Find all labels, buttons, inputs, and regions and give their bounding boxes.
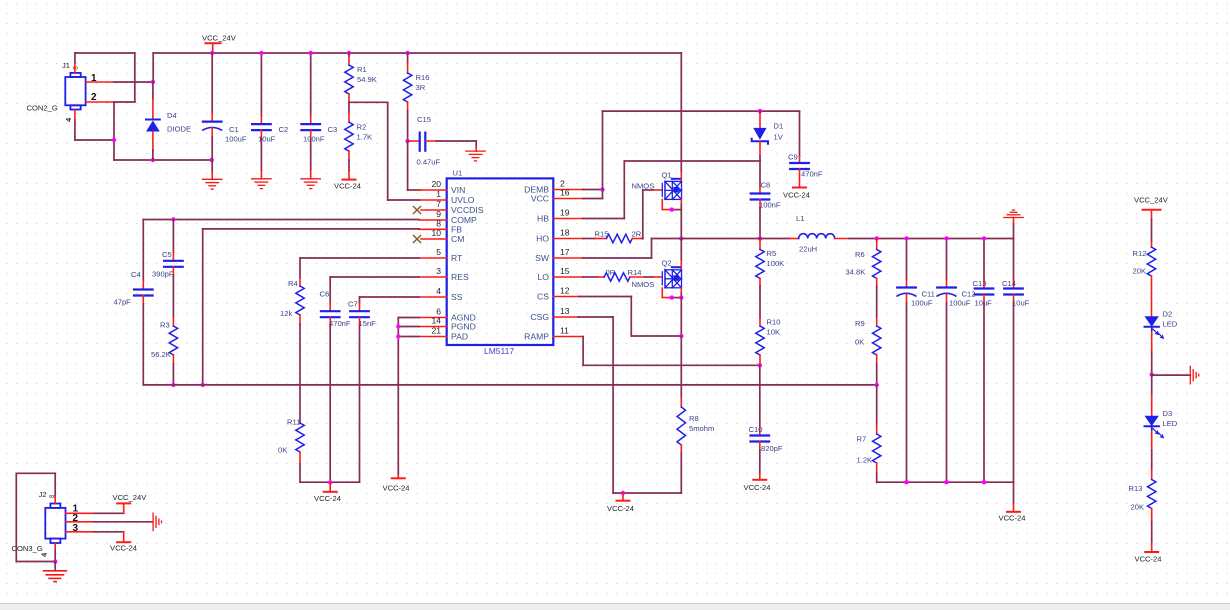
- svg-text:0R: 0R: [606, 268, 616, 277]
- U1 left pin names: [451, 185, 484, 342]
- svg-text:12: 12: [560, 286, 570, 296]
- node J1 pin1 / D4: [151, 80, 155, 84]
- no-connect X on VCCDIS: [414, 207, 421, 214]
- svg-text:56.2K: 56.2K: [151, 350, 171, 359]
- svg-text:820pF: 820pF: [761, 444, 783, 453]
- svg-text:10uF: 10uF: [258, 135, 276, 144]
- svg-text:15nF: 15nF: [359, 319, 377, 328]
- svg-text:LED: LED: [1163, 419, 1178, 428]
- svg-text:3R: 3R: [416, 83, 426, 92]
- J2 bottom pin wire: [54, 550, 56, 561]
- node J1 bottom loop: [112, 138, 116, 142]
- svg-text:J1: J1: [62, 61, 70, 70]
- svg-text:Q2: Q2: [662, 259, 672, 268]
- svg-text:8: 8: [436, 218, 441, 228]
- U1 right pin names: [524, 185, 550, 342]
- svg-text:47pF: 47pF: [114, 298, 132, 307]
- svg-text:R14: R14: [628, 268, 642, 277]
- node DEMB/VCC: [600, 187, 604, 191]
- svg-text:SS: SS: [451, 292, 463, 302]
- svg-text:10K: 10K: [767, 328, 781, 337]
- capacitor C14 column: [1004, 239, 1023, 483]
- svg-text:R9: R9: [855, 319, 865, 328]
- connector J2 body: [45, 504, 65, 544]
- svg-text:D2: D2: [1163, 310, 1173, 319]
- resistor R10: [756, 318, 764, 365]
- svg-text:CM: CM: [451, 234, 464, 244]
- ground C1: [203, 179, 222, 189]
- wire SS horizontal: [360, 296, 420, 298]
- wire CSG right: [578, 316, 613, 318]
- J1 pin2 lead: [86, 101, 114, 103]
- main top rail VCC_24V: [153, 52, 681, 54]
- node C12 top: [944, 236, 948, 240]
- svg-text:C15: C15: [417, 115, 431, 124]
- wire RES horizontal: [330, 276, 419, 278]
- svg-text:100K: 100K: [767, 259, 785, 268]
- connector J1 body: [65, 73, 85, 110]
- wire pin1 riser: [123, 503, 125, 513]
- node Q2 source right: [679, 295, 683, 299]
- J2 bottom pin lead: [54, 543, 56, 550]
- wire down right of J1: [134, 53, 136, 102]
- svg-text:DIODE: DIODE: [167, 125, 191, 134]
- svg-text:VCC-24: VCC-24: [383, 484, 410, 493]
- J1 top pin: [74, 63, 76, 74]
- J2 loop wire bottom: [16, 561, 55, 563]
- svg-text:C13: C13: [973, 279, 987, 288]
- wire HB right: [583, 218, 624, 220]
- svg-text:C6: C6: [320, 290, 330, 299]
- svg-text:C10: C10: [749, 425, 763, 434]
- diode D1 (zener): [752, 111, 768, 161]
- wire CS right: [579, 296, 631, 298]
- capacitor C13 column: [975, 239, 994, 483]
- resistor R6: [873, 239, 881, 319]
- svg-text:C12: C12: [962, 290, 976, 299]
- svg-text:20K: 20K: [1131, 503, 1145, 512]
- svg-text:10: 10: [431, 228, 441, 238]
- svg-text:VCC-24: VCC-24: [1135, 555, 1162, 564]
- ground J2: [44, 571, 67, 582]
- node J2 ground: [53, 559, 57, 563]
- diode D2 LED: [1145, 316, 1164, 338]
- resistor R9: [873, 318, 881, 385]
- wire Q1 gate riser: [642, 190, 644, 239]
- inductor L1: [790, 234, 849, 239]
- resistor R8: [677, 336, 685, 493]
- wire to J1 pin2: [114, 101, 135, 103]
- Q2 drain lead: [680, 261, 682, 270]
- J1 bottom pin: [74, 110, 76, 121]
- wire VCC to node: [583, 198, 603, 200]
- svg-text:SW: SW: [535, 253, 550, 263]
- svg-text:1.7K: 1.7K: [357, 133, 373, 142]
- svg-text:CSG: CSG: [530, 312, 549, 322]
- svg-text:LO: LO: [538, 272, 550, 282]
- node C13 top: [982, 236, 986, 240]
- svg-text:R8: R8: [689, 414, 699, 423]
- J2 loop wire top: [16, 472, 55, 474]
- svg-text:VCC-24: VCC-24: [607, 504, 634, 513]
- node Q1 source: [670, 207, 674, 211]
- wire bottom rail to C1: [114, 159, 212, 161]
- svg-text:0K: 0K: [855, 338, 864, 347]
- svg-text:J2: J2: [39, 490, 47, 499]
- Q1 source hook: [662, 200, 681, 210]
- svg-text:D3: D3: [1163, 409, 1173, 418]
- node R1 rail: [347, 51, 351, 55]
- svg-text:C9: C9: [788, 153, 798, 162]
- J2 pin2 lead: [66, 521, 95, 523]
- node VCC-24 CSG tap: [621, 491, 625, 495]
- svg-text:18: 18: [560, 228, 570, 238]
- wire HO lead: [583, 238, 595, 240]
- capacitor C2 column: [252, 53, 271, 179]
- capacitor C12 column: [937, 239, 956, 483]
- svg-text:21: 21: [431, 326, 441, 336]
- resistor R13: [1148, 480, 1156, 553]
- Q1 gate lead: [653, 189, 662, 191]
- Q2 source hook: [662, 288, 681, 298]
- resistor R1: [345, 53, 353, 102]
- power VCC-24 bottom right: [1007, 504, 1020, 512]
- wire J2 pin3: [94, 531, 124, 533]
- U1 left pin numbers: [431, 179, 441, 336]
- svg-text:15: 15: [560, 266, 570, 276]
- node C15 tap: [405, 139, 409, 143]
- svg-text:22uH: 22uH: [799, 245, 817, 254]
- node C12 bottom: [944, 480, 948, 484]
- svg-text:R6: R6: [855, 250, 865, 259]
- svg-text:D1: D1: [774, 122, 784, 131]
- resistor R3: [169, 317, 177, 385]
- svg-text:RES: RES: [451, 272, 469, 282]
- svg-text:FB: FB: [451, 225, 462, 235]
- svg-text:1: 1: [436, 189, 441, 199]
- svg-text:20K: 20K: [1133, 267, 1147, 276]
- wire FB horizontal: [203, 228, 419, 230]
- svg-text:VCC_24V: VCC_24V: [1134, 196, 1169, 205]
- power VCC-24 under AGND column: [392, 474, 405, 478]
- wire J2 pin2: [94, 521, 153, 523]
- svg-text:PAD: PAD: [451, 332, 468, 342]
- ground C2: [252, 179, 271, 189]
- no-connect X on CM: [414, 236, 421, 243]
- diode D3 LED: [1145, 416, 1164, 438]
- power VCC-24 under R2: [343, 179, 356, 181]
- capacitor C4 column: [134, 220, 153, 385]
- wire rail from pin1 node up: [152, 53, 154, 82]
- svg-text:L1: L1: [796, 214, 804, 223]
- power VCC-24 J2: [117, 541, 130, 543]
- ground J2 pin2 (sideways): [153, 513, 161, 530]
- resistor R16: [403, 53, 411, 141]
- node C1 bottom rail: [210, 158, 214, 162]
- node C11 top: [904, 236, 908, 240]
- wire VCC node up: [602, 111, 604, 198]
- wire J1 pin2 down: [113, 102, 115, 160]
- wire mid node down to D3: [1151, 375, 1153, 416]
- svg-text:VCC: VCC: [531, 194, 549, 204]
- svg-text:470nF: 470nF: [801, 170, 823, 179]
- ground output (inverted): [1004, 210, 1023, 223]
- node R6 top: [875, 236, 879, 240]
- wire VCC top horizontal to C9: [603, 110, 800, 112]
- svg-text:5mohm: 5mohm: [689, 424, 714, 433]
- svg-text:VCC-24: VCC-24: [314, 494, 341, 503]
- svg-text:R15: R15: [595, 230, 609, 239]
- svg-text:LM5117: LM5117: [484, 346, 514, 356]
- node Q2 source left: [670, 295, 674, 299]
- wire D2 to mid node: [1151, 327, 1153, 375]
- wire L1 to output rail: [849, 238, 1014, 240]
- wire LO lead: [583, 276, 597, 278]
- capacitor C8 column: [751, 161, 770, 239]
- svg-text:10uF: 10uF: [1012, 299, 1030, 308]
- svg-text:R12: R12: [1133, 249, 1147, 258]
- svg-text:VCC-24: VCC-24: [744, 483, 771, 492]
- svg-text:R11: R11: [287, 418, 300, 427]
- wire CSG down: [612, 317, 614, 493]
- svg-text:VCC-24: VCC-24: [334, 182, 361, 191]
- node SW: [679, 236, 683, 240]
- svg-text:2R: 2R: [632, 230, 642, 239]
- wire FB drop: [202, 229, 204, 385]
- op-amp/controller U1 body: [447, 178, 554, 345]
- power VCC_24V J2: [117, 502, 130, 504]
- J2 top pin wire: [54, 473, 56, 497]
- svg-text:NMOS: NMOS: [632, 182, 655, 191]
- svg-text:100uF: 100uF: [911, 299, 933, 308]
- svg-text:100uF: 100uF: [225, 135, 247, 144]
- svg-text:C1: C1: [229, 125, 239, 134]
- resistor R5: [756, 239, 764, 319]
- capacitor C9 column: [790, 111, 809, 187]
- wire R15 to Q1 gate corner: [642, 238, 643, 240]
- svg-text:∞: ∞: [49, 492, 54, 501]
- wire to R12: [1151, 220, 1153, 242]
- svg-text:5: 5: [436, 247, 441, 257]
- J2 loop wire left: [15, 473, 17, 561]
- wire bottom rail down to VCC-24: [1013, 482, 1015, 503]
- svg-text:R2: R2: [357, 123, 367, 132]
- capacitor C15 (horizontal): [408, 133, 477, 152]
- wire RAMP drop: [582, 337, 584, 366]
- svg-text:16: 16: [560, 188, 570, 198]
- svg-text:3: 3: [436, 266, 441, 276]
- node SW C8 tap: [758, 236, 762, 240]
- transistor Q1: [662, 179, 681, 200]
- svg-text:10uF: 10uF: [975, 299, 993, 308]
- svg-text:VCCDIS: VCCDIS: [451, 205, 484, 215]
- capacitor C5 column top: [164, 220, 183, 318]
- J2 pin3 lead: [66, 531, 95, 533]
- node C13 bottom: [982, 480, 986, 484]
- svg-text:C3: C3: [328, 125, 338, 134]
- svg-text:20: 20: [431, 179, 441, 189]
- wire VIN drop: [407, 141, 409, 190]
- wire J2 pin1: [94, 512, 124, 514]
- svg-text:VCC-24: VCC-24: [110, 544, 137, 553]
- node FB rail: [201, 383, 205, 387]
- svg-text:VCC_24V: VCC_24V: [202, 34, 237, 43]
- svg-text:17: 17: [560, 247, 570, 257]
- svg-text:R4: R4: [288, 279, 298, 288]
- capacitor C7 column: [350, 297, 369, 482]
- wire HB up: [623, 161, 625, 219]
- power VCC_24V LED column: [1143, 210, 1161, 220]
- wire RT horizontal: [300, 257, 419, 259]
- wire J1 bottom pin down: [74, 120, 76, 140]
- wire J1 bottom loop: [75, 139, 114, 141]
- svg-text:54.9K: 54.9K: [357, 75, 377, 84]
- node R3 rail: [171, 383, 175, 387]
- node R16 rail: [405, 51, 409, 55]
- long FB rail: [143, 384, 876, 386]
- svg-text:D4: D4: [167, 111, 177, 120]
- svg-text:C4: C4: [131, 270, 141, 279]
- svg-text:C7: C7: [348, 300, 358, 309]
- J2 pin1 lead: [66, 512, 95, 514]
- wire output rail up to ground: [1013, 224, 1015, 239]
- svg-text:100uF: 100uF: [949, 299, 971, 308]
- capacitor C1 column: [203, 53, 222, 179]
- power VCC-24 mid: [324, 482, 337, 491]
- svg-text:C8: C8: [761, 181, 771, 190]
- wire J1 pin1 to D4 column: [114, 81, 153, 83]
- svg-text:VCC-24: VCC-24: [783, 191, 810, 200]
- node VCC-24 mid tap: [328, 480, 332, 484]
- wire COMP horizontal: [143, 219, 419, 221]
- wire AGND column down: [397, 318, 399, 475]
- svg-text:34.8K: 34.8K: [846, 268, 866, 277]
- wire R1/R2 junction to right: [349, 101, 388, 103]
- svg-text:R3: R3: [160, 321, 170, 330]
- svg-text:19: 19: [560, 208, 570, 218]
- wire UVLO to pin: [388, 199, 419, 201]
- svg-text:VIN: VIN: [451, 185, 465, 195]
- capacitor C6 column: [321, 277, 340, 483]
- svg-text:R5: R5: [767, 249, 777, 258]
- svg-text:C11: C11: [922, 290, 935, 299]
- wire Q2 source down: [680, 298, 682, 336]
- wire AGND to column: [398, 317, 419, 319]
- power VCC-24 under CSG: [617, 493, 630, 501]
- resistor R12: [1147, 241, 1155, 316]
- resistor R7: [873, 385, 881, 482]
- node R9 FB rail: [875, 383, 879, 387]
- svg-text:VCC-24: VCC-24: [999, 514, 1026, 523]
- wire CS drop: [630, 297, 632, 337]
- diode D4: [146, 82, 160, 160]
- wire D3 to R13: [1151, 426, 1153, 479]
- wire CS to R8 node: [631, 335, 681, 337]
- svg-text:C5: C5: [162, 250, 172, 259]
- bottom gray strip: [0, 604, 1230, 610]
- resistor R14 (horizontal): [597, 273, 662, 281]
- svg-text:PGND: PGND: [451, 322, 476, 332]
- svg-text:CS: CS: [537, 292, 549, 302]
- svg-text:100nF: 100nF: [759, 201, 781, 210]
- svg-text:R1: R1: [357, 65, 367, 74]
- ground LED mid (sideways): [1190, 366, 1198, 383]
- svg-text:R10: R10: [767, 318, 781, 327]
- svg-text:RAMP: RAMP: [524, 332, 549, 342]
- svg-text:12k: 12k: [280, 309, 292, 318]
- svg-text:RT: RT: [451, 253, 463, 263]
- wire SW right: [583, 257, 652, 259]
- node C2 rail: [259, 51, 263, 55]
- svg-text:LED: LED: [1163, 320, 1178, 329]
- node LED mid: [1150, 372, 1154, 376]
- wire Q1 source to SW: [680, 210, 682, 239]
- node VCC_24V rail: [210, 51, 214, 55]
- wire HB top to C8: [624, 160, 760, 162]
- svg-text:R13: R13: [1129, 484, 1143, 493]
- resistor R4: [296, 258, 304, 423]
- wire VIN rail down to Q1: [680, 53, 682, 172]
- wire R10 node down: [759, 365, 761, 427]
- svg-text:100nF: 100nF: [303, 135, 325, 144]
- svg-text:11: 11: [560, 326, 569, 336]
- resistor R2: [345, 102, 353, 179]
- svg-text:UVLO: UVLO: [451, 195, 475, 205]
- wire J1 top to rail: [74, 53, 76, 63]
- wire VIN horizontal: [408, 189, 420, 191]
- wire J2 ground stem: [54, 562, 56, 571]
- svg-text:0K: 0K: [278, 446, 287, 455]
- wire CSG bottom to R8: [613, 492, 681, 494]
- U1 right pin numbers: [560, 179, 570, 336]
- Q1 drain lead: [680, 172, 682, 181]
- svg-text:0.47uF: 0.47uF: [417, 158, 441, 167]
- svg-text:CON2_G: CON2_G: [27, 104, 58, 113]
- wire R11/C6/C7 bottom join: [300, 481, 360, 483]
- svg-text:C2: C2: [279, 125, 289, 134]
- svg-text:R7: R7: [857, 435, 867, 444]
- svg-text:14: 14: [431, 316, 441, 326]
- wire top-left rail segment: [75, 52, 135, 54]
- J2 top pin lead: [54, 497, 56, 503]
- power VCC_24V top-left: [206, 43, 221, 52]
- svg-text:4: 4: [436, 286, 441, 296]
- wire pin3 drop: [123, 532, 125, 542]
- node C5 tap on COMP: [171, 217, 175, 221]
- capacitor C11 column: [897, 239, 916, 483]
- wire Q1 gate horizontal: [643, 189, 653, 191]
- svg-text:NMOS: NMOS: [632, 280, 655, 289]
- wire SW node down to Q2: [680, 239, 682, 261]
- wire DEMB to node: [583, 189, 603, 191]
- wire PAD to column: [398, 336, 419, 338]
- bottom output rail: [877, 481, 1014, 483]
- svg-text:7: 7: [436, 199, 441, 209]
- node D1 top: [758, 109, 762, 113]
- svg-text:1V: 1V: [774, 133, 784, 142]
- transistor Q2: [662, 267, 681, 288]
- node C11 bottom: [904, 480, 908, 484]
- power VCC-24 LED bottom: [1145, 551, 1158, 553]
- wire SW riser: [651, 239, 653, 259]
- svg-text:470nF: 470nF: [329, 319, 351, 328]
- U1 left pin leads: [419, 190, 447, 337]
- wire RAMP to R10 node: [583, 364, 760, 366]
- ground C3: [301, 179, 320, 189]
- svg-text:VCC_24V: VCC_24V: [113, 493, 148, 502]
- wire SW to node: [652, 238, 682, 240]
- wire mid node to ground: [1152, 374, 1191, 376]
